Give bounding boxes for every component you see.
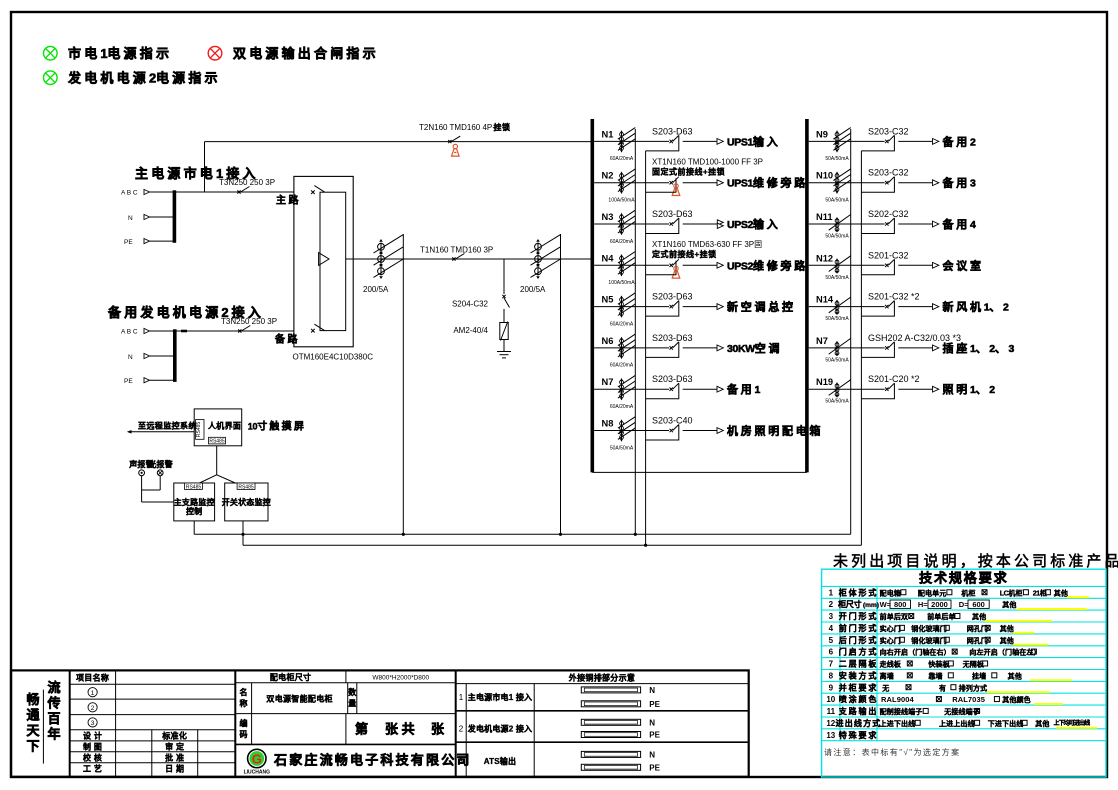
svg-text:PE: PE [124,239,133,246]
svg-text:PE: PE [649,700,660,709]
svg-text:数: 数 [348,687,357,697]
input1 collector busbar [173,190,177,243]
svg-text:挂锁: 挂锁 [494,122,511,132]
svg-text:N7: N7 [602,377,614,387]
svg-text:UPS2维修旁路: UPS2维修旁路 [727,258,808,272]
svg-text:开关状态监控: 开关状态监控 [222,497,271,507]
branch N11 wire [809,223,885,225]
svg-text:G: G [252,752,262,767]
svg-text:快装板: 快装板 [928,660,950,669]
svg-text:无隔板: 无隔板 [962,660,985,669]
svg-text:双电源输出合闸指示: 双电源输出合闸指示 [233,46,379,61]
svg-text:S203-C32: S203-C32 [868,168,909,178]
wire: SPD branch drop [503,259,505,294]
svg-text:N5: N5 [602,295,614,305]
svg-text:通: 通 [26,708,39,723]
svg-text:市电1电源指示: 市电1电源指示 [68,46,172,61]
svg-text:备用3: 备用3 [942,176,977,190]
branch N7 wire [594,388,669,390]
svg-text:张 共: 张 共 [385,722,415,737]
svg-text:日 期: 日 期 [165,764,184,774]
svg-text:S203-D63: S203-D63 [652,374,693,384]
svg-text:S203-D63: S203-D63 [652,292,693,302]
svg-text:GSH202 A-C32/0.03 *3: GSH202 A-C32/0.03 *3 [868,333,961,343]
svg-text:UPS1输入: UPS1输入 [727,134,781,148]
branch N1 wire [594,140,669,142]
spec table 技术规格要求 [822,569,1106,777]
svg-text:10寸触摸屏: 10寸触摸屏 [248,420,306,433]
svg-text:第: 第 [355,722,368,737]
wire to output arrow [683,182,717,184]
svg-text:5: 5 [829,636,834,645]
svg-text:钢化玻璃门: 钢化玻璃门 [911,636,947,645]
breaker status tap [646,383,679,399]
svg-text:50A/50mA: 50A/50mA [825,275,849,281]
svg-text:备路: 备路 [274,333,300,346]
svg-text:特殊要求: 特殊要求 [839,730,879,740]
svg-text:人机界面: 人机界面 [208,421,241,431]
breaker status tap [646,342,679,358]
svg-text:并柜要求: 并柜要求 [839,682,879,692]
branch N8 CT 50A/50mA [621,420,623,441]
svg-text:上下均可进出线: 上下均可进出线 [1054,719,1091,727]
svg-text:N9: N9 [816,129,828,139]
wire: ATS output [346,258,591,260]
wire: bypass horizontal to left bus [205,141,591,143]
svg-text:60A/20mA: 60A/20mA [610,404,634,410]
svg-text:1: 1 [829,588,834,597]
svg-text:插座1、2、3: 插座1、2、3 [943,341,1015,355]
svg-text:至远程监控系统: 至远程监控系统 [138,421,197,431]
wire to output arrow [683,223,717,225]
svg-text:向右开启（门轴在右）: 向右开启（门轴在右） [880,648,951,657]
svg-text:RAL9004: RAL9004 [881,695,915,704]
svg-text:50A/50mA: 50A/50mA [825,234,849,240]
svg-text:主路: 主路 [276,194,301,207]
svg-text:N8: N8 [602,419,614,429]
svg-text:1: 1 [91,690,95,697]
svg-text:安装方式: 安装方式 [839,670,879,680]
wire to output arrow [898,388,932,390]
svg-text:3: 3 [829,612,834,621]
svg-text:其他: 其他 [972,612,986,621]
svg-text:项目名称: 项目名称 [76,673,109,683]
indicator lamp legend: 市电1电源指示 [44,46,173,61]
wire to output arrow [898,140,932,142]
svg-text:向左开启（门轴在左）: 向左开启（门轴在左） [969,648,1040,657]
branch N4 wire [594,264,669,266]
breaker status tap [861,218,894,234]
svg-text:二层隔板: 二层隔板 [839,659,879,669]
svg-text:靠墙: 靠墙 [928,671,942,680]
svg-text:N10: N10 [816,171,833,181]
svg-text:喷涂颜色: 喷涂颜色 [839,694,879,704]
monitor box 开关状态监控 [225,483,268,521]
breaker status tap [646,218,679,234]
svg-text:控制: 控制 [186,506,202,516]
svg-text:50A/50mA: 50A/50mA [825,156,849,162]
svg-text:N6: N6 [602,336,614,346]
branch N7 CT 60A/20mA [621,379,623,400]
svg-text:实心门: 实心门 [880,624,901,633]
svg-text:13: 13 [826,731,835,740]
svg-text:名: 名 [240,687,248,697]
svg-text:前单后双: 前单后双 [880,612,908,621]
wire to output arrow [898,223,932,225]
ATS actuator triangle [319,253,329,266]
svg-text:XT1N160 TMD63-630 FF 3P固: XT1N160 TMD63-630 FF 3P固 [652,240,762,249]
input2 collector busbar [173,329,177,382]
svg-text:会议室: 会议室 [943,258,984,272]
branch N2 CT 100A/50mA [621,172,623,193]
branch N7 CT 50A/50mA [836,341,838,356]
indicator lamp legend: 双电源输出合闸指示 [208,46,379,61]
svg-text:RS485: RS485 [186,484,202,490]
svg-text:XT1N160 TMD100-1000 FF 3P: XT1N160 TMD100-1000 FF 3P [652,158,763,167]
wire to output arrow [898,264,932,266]
svg-text:下: 下 [26,739,39,754]
svg-text:50A/50mA: 50A/50mA [825,198,849,204]
svg-text:天: 天 [26,723,40,738]
svg-text:照明1、2: 照明1、2 [943,383,996,396]
svg-text:PE: PE [649,763,660,772]
svg-text:门启方式: 门启方式 [839,647,879,657]
svg-text:设 计: 设 计 [83,731,102,741]
svg-text:N19: N19 [816,377,833,387]
svg-text:发电机电源2电源指示: 发电机电源2电源指示 [67,71,221,86]
svg-text:N4: N4 [602,253,615,263]
svg-text:S201-C32 *2: S201-C32 *2 [868,292,920,302]
svg-text:机房照明配电箱: 机房照明配电箱 [727,424,823,438]
left CT collector line [634,129,636,534]
right status collector line [860,151,862,545]
svg-text:张: 张 [431,722,445,737]
svg-text:排列方式: 排列方式 [959,683,987,692]
branch N8 wire [594,430,669,432]
branch N10 CT 50A/50mA [836,172,838,193]
HMI box 人机界面 10寸触摸屏 [194,409,242,446]
svg-text:RAL7035: RAL7035 [952,695,985,704]
svg-text:配电单元: 配电单元 [918,588,946,597]
svg-text:下进下出线: 下进下出线 [988,719,1024,728]
current transformer CT2 200/5A [537,243,539,276]
ATS standby-side switch [311,329,315,333]
svg-text:60A/20mA: 60A/20mA [610,156,634,162]
svg-text:11: 11 [827,707,836,716]
svg-text:备用1: 备用1 [726,382,761,396]
svg-text:外接铜排部分示意: 外接铜排部分示意 [569,673,635,683]
svg-text:支路输出: 支路输出 [838,706,879,716]
svg-text:备用2: 备用2 [942,134,977,148]
svg-text:S203-D63: S203-D63 [652,209,693,219]
svg-text:N14: N14 [816,295,834,305]
svg-text:批 准: 批 准 [165,753,184,763]
wire: input1 main [174,191,294,193]
svg-text:工 艺: 工 艺 [83,764,102,774]
svg-text:H=: H= [918,600,928,609]
svg-text:100A/50mA: 100A/50mA [608,280,635,286]
svg-text:10: 10 [826,695,835,704]
svg-text:其他: 其他 [1035,719,1049,728]
svg-text:上进上出线: 上进上出线 [939,719,975,728]
branch N5 CT 60A/20mA [621,296,623,317]
svg-text:标准化: 标准化 [161,731,187,741]
svg-text:配电箱: 配电箱 [880,588,901,597]
svg-text:称: 称 [240,698,248,708]
svg-text:60A/20mA: 60A/20mA [610,363,634,369]
branch N12 CT 50A/50mA [836,259,838,274]
branch N19 wire [809,388,885,390]
svg-text:UPS1维修旁路: UPS1维修旁路 [727,176,808,190]
svg-text:200/5A: 200/5A [363,285,389,294]
branch N9 CT 50A/50mA [836,131,838,152]
svg-text:N12: N12 [816,253,833,263]
svg-text:其他颜色: 其他颜色 [1002,695,1030,704]
breaker status tap [861,342,894,358]
svg-text:S204-C32: S204-C32 [452,300,489,309]
svg-text:新空调总控: 新空调总控 [727,300,796,314]
breaker status tap [861,301,894,317]
wire to output arrow [898,306,932,308]
svg-text:N2: N2 [602,171,614,181]
svg-text:RS485: RS485 [209,439,225,445]
company logo [248,749,266,767]
svg-text:RS485: RS485 [238,484,254,490]
branch N11 CT 50A/50mA [836,218,838,233]
svg-text:S201-C32: S201-C32 [868,250,909,260]
branch N14 CT 50A/50mA [836,300,838,315]
branch N6 CT 60A/20mA [621,337,623,358]
svg-text:N: N [128,215,133,222]
svg-text:N7: N7 [816,336,828,346]
breaker status tap [646,301,679,317]
svg-text:A B C: A B C [121,190,138,197]
svg-text:进出线方式: 进出线方式 [836,718,882,728]
svg-text:800: 800 [894,600,907,609]
svg-text:3: 3 [459,757,464,766]
branch N3 CT 60A/20mA [621,214,623,235]
svg-text:编: 编 [240,718,248,728]
svg-text:S202-C32: S202-C32 [868,209,909,219]
svg-text:LC机柜: LC机柜 [1000,588,1023,597]
svg-text:UPS2输入: UPS2输入 [727,217,781,231]
svg-text:50A/50mA: 50A/50mA [825,357,849,363]
svg-text:后门形式: 后门形式 [839,635,879,645]
svg-text:开门形式: 开门形式 [839,611,879,621]
wire to output arrow [683,264,717,266]
wire to output arrow [683,388,717,390]
svg-text:7: 7 [829,660,834,669]
branch N19 CT 50A/50mA [836,383,838,398]
svg-text:百: 百 [47,711,60,726]
wire to output arrow [683,347,717,349]
wire to output arrow [683,140,717,142]
svg-text:9: 9 [829,683,834,692]
svg-text:主电源市电1 接入: 主电源市电1 接入 [468,692,532,702]
svg-text:请注意：表中标有"√"为选定方案: 请注意：表中标有"√"为选定方案 [824,747,960,757]
svg-text:12: 12 [826,719,835,728]
branch N14 wire [809,306,885,308]
svg-text:钢化玻璃门: 钢化玻璃门 [911,624,947,633]
svg-text:码: 码 [240,730,248,739]
svg-text:N: N [128,354,133,361]
svg-text:其他: 其他 [1000,624,1014,633]
svg-text:配电柜尺寸: 配电柜尺寸 [270,672,312,682]
branch N6 wire [594,347,669,349]
svg-text:1: 1 [459,693,464,702]
metering bus line1 [194,533,851,535]
svg-text:A B C: A B C [121,329,138,336]
svg-text:上进下出线: 上进下出线 [880,719,916,728]
svg-text:其他: 其他 [1054,588,1068,597]
branch N12 wire [809,264,885,266]
svg-text:备用4: 备用4 [942,217,977,231]
svg-text:LIUCHANG: LIUCHANG [244,769,270,775]
ground [497,351,511,353]
svg-text:AM2-40/4: AM2-40/4 [453,326,488,335]
breaker status tap [675,178,677,192]
breaker status tap [675,261,677,275]
wire to output arrow [683,430,717,432]
svg-text:机柜: 机柜 [961,588,975,597]
svg-text:技术规格要求: 技术规格要求 [919,571,1008,586]
branch N3 wire [594,223,669,225]
ATS main-side switch [311,190,315,194]
branch N5 wire [594,306,669,308]
svg-text:前门形式: 前门形式 [839,623,879,633]
svg-text:OTM160E4C10D380C: OTM160E4C10D380C [293,353,374,362]
svg-text:30KW空调: 30KW空调 [727,341,782,355]
svg-text:N3: N3 [602,212,614,222]
svg-text:200/5A: 200/5A [520,285,546,294]
indicator lamp legend: 发电机电源2电源指示 [44,71,221,86]
wire: CT2 metering tap [560,234,562,534]
svg-text:前单后单: 前单后单 [927,612,955,621]
svg-text:T1N160 TMD160 3P: T1N160 TMD160 3P [420,246,493,255]
svg-text:2: 2 [91,705,95,712]
breaker status tap [861,383,894,399]
svg-text:600: 600 [972,600,985,609]
wire: input2 main [175,330,294,332]
svg-text:制 图: 制 图 [83,742,102,752]
svg-text:校 核: 校 核 [83,753,102,763]
svg-text:其他: 其他 [1000,636,1014,645]
svg-text:无: 无 [881,684,889,692]
svg-text:其他: 其他 [1008,671,1022,680]
branch N10 wire [809,182,885,184]
branch N7 wire [809,347,885,349]
svg-text:S203-D63: S203-D63 [652,333,693,343]
breaker status tap [861,177,894,193]
svg-text:发电机电源2 接入: 发电机电源2 接入 [467,723,532,733]
wire to output arrow [683,306,717,308]
breaker status tap [861,135,894,151]
svg-text:N1: N1 [602,129,614,139]
right distribution bus [805,119,809,472]
wire: bus bottom jumper [592,471,807,473]
svg-text:N: N [649,750,655,759]
left status collector line [645,151,647,545]
svg-text:2: 2 [459,724,464,733]
svg-text:配制接线端子: 配制接线端子 [880,707,923,716]
svg-text:T3N250 250 3P: T3N250 250 3P [219,178,275,187]
breaker status tap [861,259,894,275]
svg-text:未列出项目说明，按本公司标准产品加工: 未列出项目说明，按本公司标准产品加工 [833,553,1118,570]
svg-text:60A/20mA: 60A/20mA [610,321,634,327]
svg-text:100A/50mA: 100A/50mA [608,198,635,204]
wire: CT1 metering tap [402,234,404,534]
svg-text:实心门: 实心门 [880,636,901,645]
breaker status tap [646,135,679,151]
svg-text:量: 量 [348,698,356,708]
wire to output arrow [898,347,932,349]
svg-text:定式前接线+挂锁: 定式前接线+挂锁 [651,249,717,259]
svg-text:其他: 其他 [1002,600,1016,609]
wire: box B to status bus [242,521,244,545]
branch N4 CT 100A/50mA [621,255,623,276]
svg-text:PE: PE [124,378,133,385]
svg-text:T2N160 TMD160 4P+: T2N160 TMD160 4P+ [419,123,497,132]
title block [11,670,749,776]
wire: bypass riser from input1 [204,142,206,192]
right CT collector line [850,129,852,534]
svg-text:主支路监控: 主支路监控 [174,497,215,507]
svg-text:有: 有 [939,683,946,692]
svg-text:固定式前接线+挂锁: 固定式前接线+挂锁 [652,167,725,177]
svg-text:6: 6 [829,648,834,657]
svg-text:N: N [649,718,655,727]
svg-text:S203-D63: S203-D63 [652,126,693,136]
svg-text:3: 3 [91,720,95,727]
breaker status tap [646,425,679,441]
current transformer CT1 200/5A [380,243,382,276]
branch N1 CT 60A/20mA [621,131,623,152]
svg-text:双电源智能配电柜: 双电源智能配电柜 [266,694,332,704]
svg-text:畅: 畅 [26,692,39,707]
junction dots [241,533,244,536]
svg-text:挂墙: 挂墙 [972,671,986,680]
svg-text:4: 4 [829,624,834,633]
wire: HMI down link [216,446,218,475]
svg-text:W800*H2000*D800: W800*H2000*D800 [372,675,429,682]
wire to output arrow [898,182,932,184]
svg-text:50A/50mA: 50A/50mA [825,399,849,405]
svg-text:50A/50mA: 50A/50mA [610,445,634,451]
svg-text:审 定: 审 定 [165,742,184,752]
svg-text:年: 年 [47,727,60,742]
svg-text:S203-C40: S203-C40 [652,416,693,426]
svg-text:8: 8 [829,671,834,680]
svg-text:离墙: 离墙 [880,671,894,680]
svg-text:PE: PE [649,731,660,740]
controller box 主支路监控控制 [174,483,215,521]
svg-text:N: N [649,686,655,695]
wires: alarms to controller [141,476,143,502]
svg-text:柜体形式: 柜体形式 [838,587,879,597]
svg-text:50A/50mA: 50A/50mA [825,316,849,322]
branch N2 wire [594,182,669,184]
status bus line2 [243,544,861,546]
svg-text:流: 流 [47,680,60,695]
branch N9 wire [809,140,885,142]
svg-text:S203-C32: S203-C32 [868,126,909,136]
svg-text:新风机1、2: 新风机1、2 [943,300,1010,314]
wire: box A to metering bus [193,521,195,534]
ATS U1 OTM160E4C10D380C outer box [294,176,353,346]
svg-text:N11: N11 [816,212,833,222]
svg-text:传: 传 [46,696,60,711]
ATS inner mechanism box [320,192,346,330]
